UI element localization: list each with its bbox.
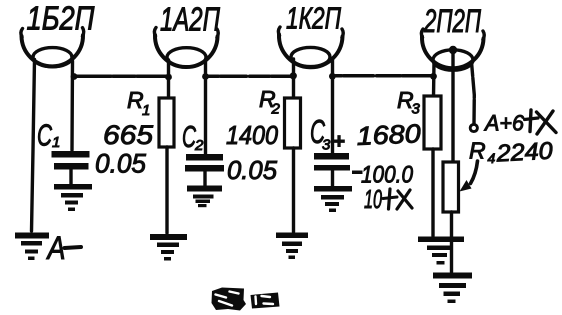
label C2 xyxy=(182,119,204,154)
resistor R2 xyxy=(285,98,301,148)
caption stamp blob 2 xyxy=(251,293,280,309)
resistor R1 xyxy=(159,98,174,147)
wire C3 to ground xyxy=(331,170,334,186)
wire R2 to ground xyxy=(292,148,295,232)
junction V2 anode xyxy=(202,73,209,80)
junction V3 anode xyxy=(329,73,336,80)
wire bus V2 to V3 xyxy=(209,75,292,79)
svg-text:3: 3 xyxy=(412,101,421,118)
tube V4 envelope xyxy=(421,29,484,70)
wire R4 to ground xyxy=(450,212,453,272)
arrow pointing to R4 xyxy=(460,161,478,192)
svg-text:А+6: А+6 xyxy=(483,111,525,136)
wire V4 middle leg to R4 xyxy=(451,52,454,162)
caption stamp blob 1 xyxy=(212,288,247,311)
wire V4 left leg to R3 xyxy=(432,62,436,97)
wire V3 left leg to R2 xyxy=(292,59,295,98)
wire V4 right leg to A+ terminal xyxy=(472,62,475,124)
value 10в (C3) xyxy=(364,184,412,214)
svg-text:+: + xyxy=(333,130,345,153)
svg-text:4: 4 xyxy=(488,150,496,166)
svg-text:665: 665 xyxy=(103,120,154,150)
resistor R4 xyxy=(443,162,459,212)
ground A- xyxy=(15,233,49,261)
label R3 xyxy=(397,87,421,118)
junction V4 grid xyxy=(430,73,437,80)
svg-text:1680: 1680 xyxy=(356,118,422,151)
label C1 xyxy=(37,118,60,153)
wire R1 to ground xyxy=(165,147,168,233)
svg-text:0.05: 0.05 xyxy=(227,155,278,185)
svg-text:1: 1 xyxy=(52,134,60,151)
wire R3 to ground xyxy=(431,149,434,236)
label C3 xyxy=(310,113,331,154)
resistor R3 xyxy=(424,96,441,149)
tube V1 envelope xyxy=(21,28,84,67)
svg-text:2240: 2240 xyxy=(495,138,554,168)
tube V3 envelope xyxy=(278,27,343,67)
ground under R4 xyxy=(433,273,472,304)
label R1 xyxy=(127,87,150,119)
terminal A+ xyxy=(470,124,477,131)
net label А+6в xyxy=(483,110,556,136)
svg-text:1К2П: 1К2П xyxy=(286,1,341,36)
ground under R3 xyxy=(418,237,464,265)
label R4 xyxy=(469,138,496,167)
svg-text:2П2П: 2П2П xyxy=(423,3,481,39)
ground under R1 xyxy=(150,234,187,261)
svg-text:10: 10 xyxy=(364,184,382,214)
svg-text:С: С xyxy=(37,118,52,153)
wire bus V3 to V4 xyxy=(336,74,432,78)
svg-text:1: 1 xyxy=(142,102,150,119)
ground under C3 xyxy=(314,186,352,212)
tube V2 envelope xyxy=(154,28,218,68)
wire V2 right leg xyxy=(204,61,207,154)
svg-text:3: 3 xyxy=(322,137,331,154)
net label А− xyxy=(46,230,81,266)
svg-text:2: 2 xyxy=(194,137,204,154)
junction V2 grid xyxy=(165,74,172,81)
junction V1 anode xyxy=(71,73,78,80)
wire bus V1 to V2 xyxy=(77,75,167,79)
capacitor C2 xyxy=(185,154,224,172)
ground under C2 xyxy=(187,186,222,208)
wire V1 left leg (filament to A-) xyxy=(32,60,35,232)
wire V1 right leg xyxy=(70,61,74,150)
wire C2 to ground xyxy=(203,172,206,186)
ground under C1 xyxy=(54,184,92,211)
svg-text:1400: 1400 xyxy=(226,120,278,150)
capacitor C1 xyxy=(52,151,90,170)
wire C1 to ground xyxy=(69,170,72,185)
junction V3 grid xyxy=(290,72,297,79)
junction V4 top (middle electrode) xyxy=(449,46,457,54)
wire V2 left leg to R1 xyxy=(167,60,170,98)
capacitor C3 electrolytic xyxy=(314,153,363,174)
wire V3 right leg xyxy=(331,59,334,155)
svg-text:2: 2 xyxy=(271,101,281,118)
ground under R2 xyxy=(276,233,308,260)
label R2 xyxy=(259,86,281,118)
svg-text:1А2П: 1А2П xyxy=(160,1,220,38)
svg-text:0.05: 0.05 xyxy=(95,149,147,179)
